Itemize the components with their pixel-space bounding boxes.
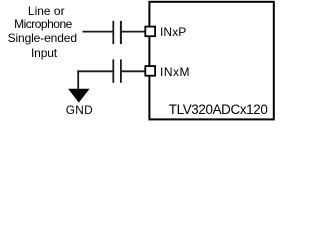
- ground label GND: [66, 105, 93, 117]
- node: input label "Line or": [28, 5, 65, 17]
- capacitor C1 right plate: [120, 21, 122, 44]
- node: input label "Input": [31, 47, 57, 59]
- wire: vertical drop to ground: [77, 70, 79, 89]
- wire: corner to C2 left plate: [77, 70, 113, 72]
- pin label INxP: [160, 26, 186, 38]
- pin INxP terminal square: [145, 27, 155, 37]
- capacitor C2 left plate: [112, 59, 114, 82]
- capacitor C1 left plate: [112, 21, 114, 44]
- node: input label "Single-ended": [8, 32, 77, 44]
- node: input label "Microphone": [14, 18, 72, 30]
- ground symbol triangle: [68, 89, 90, 103]
- op IC U1 box TLV320ADCx120: [149, 2, 273, 120]
- wire: input to C1 left plate: [83, 31, 114, 33]
- wire: C1 to pin INxP: [122, 31, 146, 33]
- IC value label TLV320ADCx120: [169, 103, 268, 116]
- pin INxM terminal square: [145, 66, 155, 76]
- capacitor C2 right plate: [120, 59, 122, 82]
- pin label INxM: [160, 66, 190, 78]
- wire: C2 to pin INxM: [122, 70, 146, 72]
